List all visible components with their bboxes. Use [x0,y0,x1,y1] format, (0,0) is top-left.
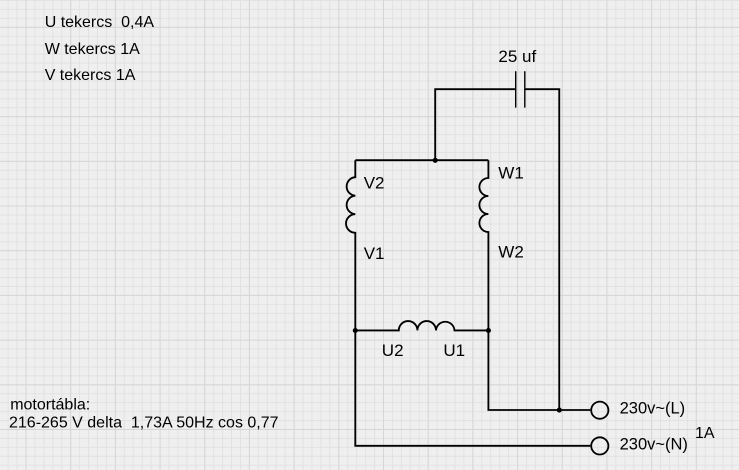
wire: V1/U2 node down and right to N terminal [355,330,590,445]
junction: V1/U2 node [353,328,358,333]
wire: capacitor left lead (from top node up and right to left plate) [435,89,516,160]
svg-text:230v~(N): 230v~(N) [620,435,688,453]
svg-text:V2: V2 [364,173,385,192]
svg-text:W1: W1 [498,163,524,182]
svg-text:W tekercs 1A: W tekercs 1A [45,41,140,58]
junction: capacitor lead on top wire [433,158,438,163]
wire: capacitor right lead (right plate right then down to L node) [525,89,559,410]
inductor U winding (U2 left, U1 right) on bottom wire [355,321,488,330]
svg-text:25 uf: 25 uf [498,47,536,66]
svg-text:1A: 1A [695,425,715,442]
svg-text:U1: U1 [443,341,465,360]
svg-text:V1: V1 [364,244,385,263]
svg-text:230v~(L): 230v~(L) [620,400,686,418]
wire: W2/U1 node down and right to L terminal [488,330,590,410]
svg-text:motortábla:: motortábla: [10,397,90,414]
terminal circle N [591,437,608,454]
svg-text:V tekercs 1A: V tekercs 1A [45,67,136,84]
svg-text:U tekercs 0,4A: U tekercs 0,4A [45,14,155,31]
svg-text:216-265 V delta 1,73A 50Hz co: 216-265 V delta 1,73A 50Hz cos 0,77 [9,414,279,431]
capacitor C1 25uf plates [516,71,525,107]
inductor W winding (W1 top, W2 bottom) [479,160,488,330]
junction: capacitor lead joins L wire [557,408,562,413]
terminal circle L [591,402,608,419]
svg-text:W2: W2 [498,242,524,261]
wire: top horizontal V2-W1 node [355,159,488,161]
inductor V winding (V2 top, V1 bottom) [346,160,355,330]
junction: W2/U1 node [486,328,491,333]
svg-text:U2: U2 [382,341,404,360]
